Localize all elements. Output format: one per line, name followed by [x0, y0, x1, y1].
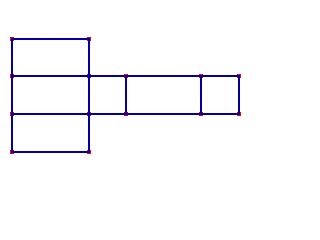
wire bottom edge of bottom flap (M-N) — [11, 151, 90, 153]
node A (top-left corner of top flap) — [10, 37, 14, 41]
node B (top-right corner of top flap) — [87, 37, 91, 41]
node G (strip top edge, right end) — [237, 74, 241, 78]
node D (strip top edge, first junction) — [87, 74, 91, 78]
wire bottom edge of middle strip (H-I-J-K-L) — [11, 113, 240, 115]
wire second vertical (B-D-I-N) — [88, 38, 90, 153]
node J (strip bottom edge, second junction) — [124, 112, 128, 116]
node M (bottom-left corner of bottom flap) — [10, 150, 14, 154]
wire top edge of middle strip (C-D-E-F-G) — [11, 75, 240, 77]
wire vertical divider (E-J) — [125, 75, 127, 115]
node K (strip bottom edge, third junction) — [199, 112, 203, 116]
wire vertical divider (F-K) — [200, 75, 202, 115]
node H (strip bottom edge, left end) — [10, 112, 14, 116]
node L (strip bottom edge, right end) — [237, 112, 241, 116]
node N (bottom-right corner of bottom flap) — [87, 150, 91, 154]
wire right vertical (G-L) — [238, 75, 240, 115]
wire left vertical (A-C-H-M) — [11, 38, 13, 153]
wire top edge of top flap (A-B) — [11, 38, 90, 40]
node F (strip top edge, third junction) — [199, 74, 203, 78]
node C (strip top edge, left end) — [10, 74, 14, 78]
node E (strip top edge, second junction) — [124, 74, 128, 78]
node I (strip bottom edge, first junction) — [87, 112, 91, 116]
